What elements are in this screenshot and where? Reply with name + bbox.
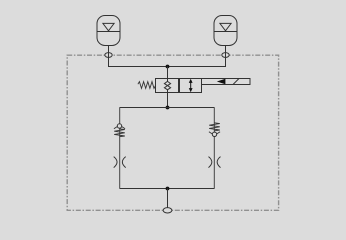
check valve CV1 spring — [114, 129, 125, 137]
port P3 (bottom bulkhead pass-through) — [163, 208, 172, 213]
wire accumulator manifold — [109, 46, 226, 67]
solenoid Y1 diagonal — [233, 79, 239, 85]
wire through valve V1 (port line) — [167, 79, 169, 108]
accumulator A1 shell — [97, 16, 120, 46]
valve V1 flow arrow (double headed) — [189, 79, 193, 92]
node J1 — [166, 65, 170, 69]
valve V1 position box 1 (check position) — [156, 79, 179, 93]
port P2 (right bulkhead pass-through) — [222, 53, 229, 58]
valve V1 position box 2 (free-flow position) — [180, 79, 202, 93]
coupling K1 (left, opposing arcs) — [114, 157, 126, 168]
check valve CV1 seat — [114, 125, 125, 129]
accumulator A2 shell — [214, 16, 237, 46]
valve V1 poppet diamond lower — [164, 86, 170, 90]
accumulator A2 gas triangle — [220, 23, 231, 30]
wire loop top — [120, 107, 215, 109]
node J3 (loop bottom) — [166, 187, 170, 191]
spring S1 (valve return spring) — [138, 82, 156, 89]
valve V1 poppet diamond upper — [164, 81, 170, 85]
wire J3 to tank port — [167, 189, 169, 211]
coupling K2 (right, opposing arcs) — [209, 157, 221, 168]
accumulator A1 gas triangle — [103, 23, 114, 30]
enclosure boundary (dash-dot) — [67, 55, 278, 210]
check valve CV1 ball — [117, 124, 121, 128]
solenoid Y1 body — [202, 79, 251, 85]
port P1 (left bulkhead pass-through) — [105, 53, 112, 58]
check valve CV2 seat — [209, 132, 220, 136]
check valve CV2 ball — [212, 132, 216, 136]
solenoid Y1 armature triangle — [217, 79, 226, 85]
check valve CV2 spring — [209, 123, 220, 131]
wire loop left edge — [119, 108, 121, 189]
wire loop bottom — [120, 188, 215, 190]
wire loop right edge — [213, 108, 215, 189]
wire J1 to valve V1 — [167, 67, 169, 79]
node J2 (loop top) — [166, 106, 170, 110]
